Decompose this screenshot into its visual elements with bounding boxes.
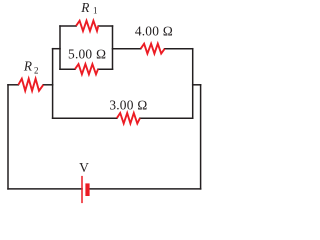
svg-text:3.00 Ω: 3.00 Ω xyxy=(109,97,147,112)
svg-text:V: V xyxy=(79,160,89,175)
svg-text:R: R xyxy=(23,58,32,73)
svg-text:2: 2 xyxy=(34,65,39,75)
svg-text:R: R xyxy=(80,0,89,15)
svg-text:1: 1 xyxy=(93,6,98,16)
svg-text:4.00 Ω: 4.00 Ω xyxy=(135,23,173,38)
svg-text:5.00 Ω: 5.00 Ω xyxy=(68,47,106,62)
